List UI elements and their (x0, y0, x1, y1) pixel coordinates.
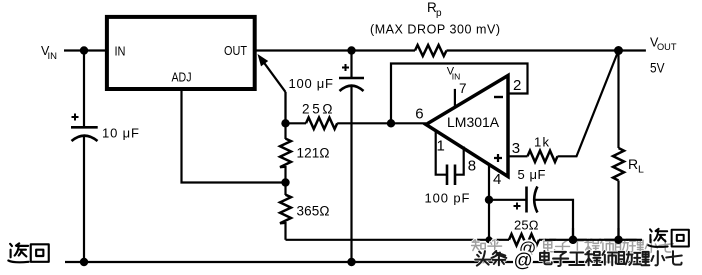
label minus input (494, 96, 503, 98)
svg-text:IN: IN (115, 45, 126, 59)
svg-text:L: L (638, 164, 644, 176)
wire pin8 stub (455, 147, 464, 175)
resistor R3 365ohm (280, 195, 291, 224)
wire arrow to OUT pin (adjust pointer) (264, 62, 286, 92)
wire R2 to opamp output node (337, 122, 426, 124)
node output junction at C2 (347, 46, 355, 54)
svg-text:10 μF: 10 μF (102, 126, 139, 141)
svg-text:IN: IN (452, 72, 461, 82)
svg-text:3: 3 (512, 140, 520, 157)
node pin4 junction (485, 196, 493, 204)
wire Vin branch down to C1 (83, 51, 85, 128)
wire bottom net from R3 to RL (286, 239, 510, 241)
svg-text:OUT: OUT (224, 44, 247, 58)
wire OUT to Rp (255, 49, 415, 51)
svg-text:25Ω: 25Ω (514, 218, 539, 233)
svg-text:IN: IN (48, 51, 58, 62)
svg-text:7: 7 (459, 81, 467, 96)
resistor R1 121ohm (280, 139, 291, 168)
wire pin1 stub (436, 130, 447, 175)
wire Rp to Vout node (447, 49, 646, 51)
wire pin4 down (488, 164, 490, 240)
wire C2 to ground rail (350, 85, 352, 262)
capacitor C2 100uF (339, 51, 364, 92)
op-amp U1 LM301A triangle (426, 76, 508, 177)
node C4 bottom junction (569, 236, 577, 244)
watermark zhihu gray line (472, 239, 674, 253)
wire bottom net redraw over watermark (545, 228, 642, 244)
node pin4 bottom (486, 236, 493, 243)
svg-text:4: 4 (493, 171, 501, 188)
svg-text:(MAX DROP 300 mV): (MAX DROP 300 mV) (370, 23, 500, 37)
ground rail (65, 261, 645, 263)
wire C1 to ground rail (83, 135, 85, 262)
svg-text:8: 8 (468, 158, 476, 175)
node VIN junction (80, 46, 88, 54)
wire pin4 to C4 (489, 199, 527, 201)
svg-text:R: R (628, 156, 638, 172)
node R1 top junction (281, 119, 289, 127)
svg-text:2: 2 (513, 77, 521, 94)
watermark toutiao black line (475, 251, 682, 266)
svg-text:LM301A: LM301A (447, 114, 500, 130)
svg-text:OUT: OUT (657, 42, 677, 53)
svg-text:100 pF: 100 pF (425, 191, 470, 206)
svg-text:ADJ: ADJ (172, 71, 192, 85)
wire pin3 to R5 (509, 155, 528, 157)
wire RL to bottom net (617, 181, 619, 240)
svg-text:5V: 5V (650, 60, 665, 76)
svg-text:6: 6 (415, 105, 423, 122)
label plus input (494, 154, 502, 162)
svg-text:p: p (436, 8, 442, 19)
node pin6 feedback junction (387, 119, 395, 127)
svg-text:@: @ (514, 251, 533, 272)
svg-text:25Ω: 25Ω (302, 102, 333, 117)
node ADJ junction (281, 178, 289, 186)
node ground C1 (80, 258, 88, 266)
svg-text:121Ω: 121Ω (297, 146, 330, 161)
label return left (8, 243, 48, 262)
resistor R4 25ohm bottom zigzag (509, 234, 539, 246)
wire ADJ pin path (182, 89, 286, 183)
wire pin7 stub (454, 89, 456, 108)
node ground C2 (347, 258, 355, 266)
wire C4 to bottom net (535, 200, 573, 240)
wire Vout to RL (617, 51, 619, 149)
svg-text:1: 1 (437, 138, 445, 155)
regulator U2 box (107, 17, 255, 89)
capacitor C1 10uF (71, 114, 98, 142)
svg-text:365Ω: 365Ω (297, 204, 330, 219)
wire feedback loop pin6 to pin2 (391, 64, 528, 124)
wire to R2 25ohm (286, 122, 307, 124)
capacitor C3 100pF (447, 165, 455, 186)
svg-text:5 μF: 5 μF (518, 167, 546, 182)
resistor R2 25ohm zigzag (306, 118, 337, 130)
svg-text:100 μF: 100 μF (289, 76, 334, 91)
node Vout junction (614, 46, 623, 55)
resistor Rp zigzag (415, 45, 447, 56)
node RL bottom junction (614, 236, 622, 244)
wire R4 to RL bottom (539, 239, 642, 241)
label return right (648, 229, 689, 247)
wire R5 to Vout diagonal (558, 51, 619, 157)
svg-text:1k: 1k (534, 135, 550, 150)
capacitor C4 5uF (514, 187, 538, 213)
resistor RL zigzag (613, 148, 624, 181)
wire top rail from Vin to regulator (64, 49, 106, 51)
resistor R5 1k zigzag (528, 151, 558, 162)
